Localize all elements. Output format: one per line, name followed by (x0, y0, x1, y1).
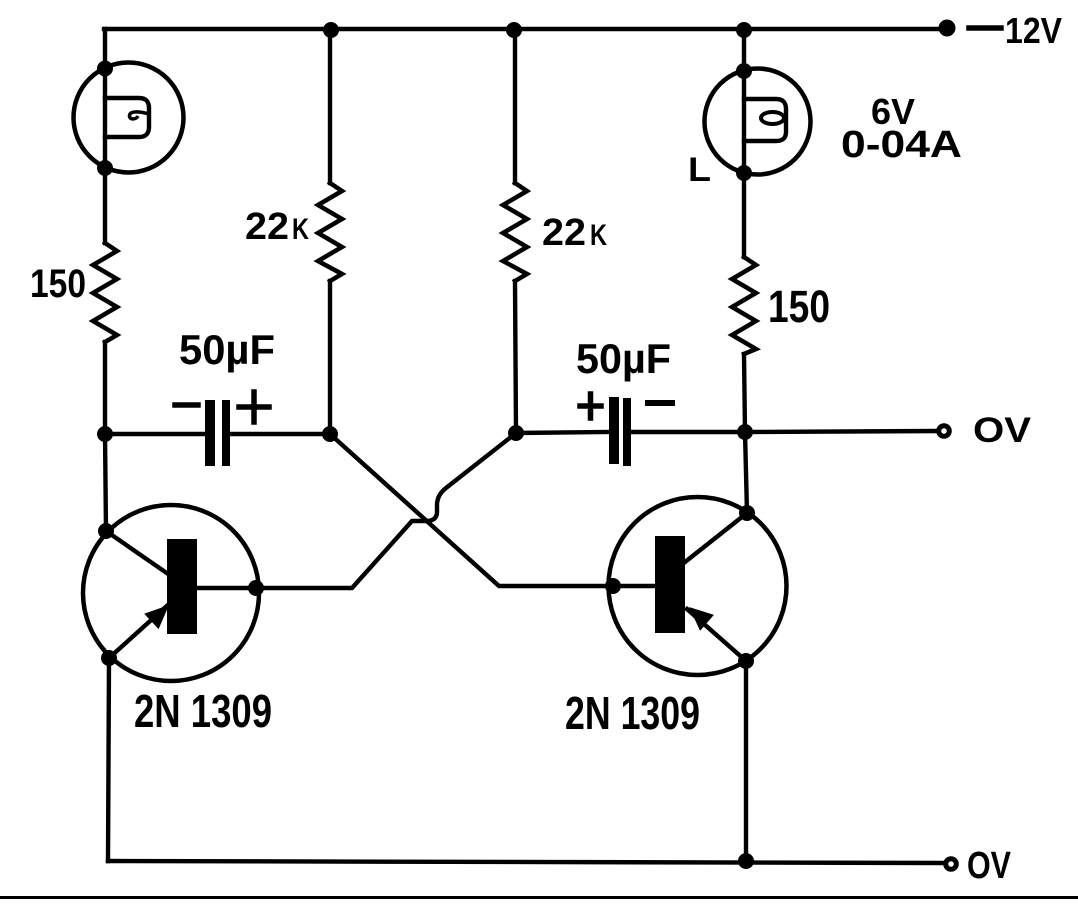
junction: Q2 emitter (738, 653, 754, 669)
wire: LP1 to R1 (103, 168, 107, 243)
junction: Q1 collector (98, 523, 114, 539)
wire: R3 to node C (515, 281, 516, 433)
wire: rail to R2 (328, 29, 332, 183)
label: C2 polarity plus (580, 394, 601, 418)
svg-text:22: 22 (542, 212, 586, 254)
svg-text:50µF: 50µF (179, 326, 275, 373)
junction: node B (R2 / C1 / cross wire) (322, 426, 338, 442)
svg-text:L: L (688, 151, 711, 189)
svg-text:K: K (292, 213, 309, 246)
junction: LP2 bottom (736, 165, 752, 181)
svg-text:150: 150 (768, 281, 830, 332)
wire: LP2 to R4 (742, 173, 746, 257)
wire: Q1 emitter to bottom 0V rail (108, 658, 109, 861)
junction: Q1 emitter (101, 650, 117, 666)
wire: node D to Q2 collector (745, 432, 747, 513)
junction: LP1 top (97, 61, 113, 77)
wire: rail to lamp LP1 (passes through bulb) (103, 29, 107, 171)
svg-text:OV: OV (973, 411, 1032, 450)
junction: node C (R3 / C2 / cross wire) (508, 425, 524, 441)
svg-text:22: 22 (245, 206, 289, 248)
svg-text:2N 1309: 2N 1309 (134, 685, 272, 737)
wire: Q2 emitter to bottom 0V rail (744, 661, 748, 861)
lamp LP2 L (705, 69, 811, 175)
junction: node A (Q1 collector / C1 minus) (97, 426, 113, 442)
junction: rail / R2 branch (323, 22, 339, 38)
capacitor C1 50uF (205, 400, 230, 466)
resistor R1 150 (93, 243, 117, 342)
lamp LP1 (74, 63, 184, 173)
label: C2 polarity minus (648, 400, 672, 406)
wire: C2 to node D (631, 430, 745, 434)
capacitor C2 50uF (609, 397, 631, 466)
terminal: 0V mid (open circle) (939, 426, 950, 437)
wire: R4 to node D (744, 354, 745, 432)
label: C1 polarity minus (175, 402, 198, 408)
wire: cross-coupling node C to Q1 base with hop over (256, 433, 516, 588)
wire: node A to C1 (105, 432, 205, 436)
wire: rail to R3 (513, 29, 517, 183)
label: -12V (969, 10, 1062, 51)
wire: R1 to node A (103, 342, 107, 434)
wire: node C to C2 (516, 432, 609, 433)
terminal dot: -12V supply (939, 20, 956, 37)
wire: cross-coupling node B to Q2 base (330, 434, 613, 586)
junction: rail / LP2 branch (736, 22, 752, 38)
junction: Q1 base node (248, 580, 264, 596)
svg-text:0-04A: 0-04A (841, 124, 962, 166)
junction: Q2 collector (739, 505, 755, 521)
wire: -12V top supply rail (104, 27, 947, 31)
svg-text:2N 1309: 2N 1309 (565, 687, 700, 739)
svg-text:150: 150 (30, 262, 86, 306)
resistor R3 22K (503, 183, 527, 281)
wire: node D to 0V terminal (745, 431, 938, 432)
resistor R2 22K (318, 183, 342, 281)
wire: rail to lamp LP2 (passes through bulb) (742, 29, 746, 173)
wire: R2 to node B (328, 281, 332, 434)
svg-text:K: K (590, 219, 607, 252)
svg-text:OV: OV (967, 845, 1012, 887)
junction: bottom rail / Q2 emitter (738, 853, 754, 869)
svg-text:12V: 12V (1005, 10, 1062, 51)
label: C1 polarity plus (239, 392, 269, 422)
junction: Q2 base node (605, 578, 621, 594)
junction: LP1 bottom (97, 160, 113, 176)
terminal: 0V bottom (open circle) (946, 859, 957, 870)
transistor Q2 2N1309 (609, 497, 787, 675)
junction: rail / R3 branch (506, 22, 522, 38)
wire: C1 to node B (230, 432, 330, 436)
transistor Q1 2N1309 (83, 505, 259, 681)
label: R2 value 22K (245, 206, 309, 248)
svg-text:50µF: 50µF (576, 335, 671, 382)
wire: bottom 0V rail (108, 861, 945, 863)
wire: node A to Q1 collector (105, 434, 106, 531)
junction: LP2 top (736, 63, 752, 79)
label: R3 value 22K (542, 212, 607, 254)
junction: node D (R4 / C2 / 0V tap / Q2 collector) (737, 424, 753, 440)
resistor R4 150 (732, 257, 756, 354)
